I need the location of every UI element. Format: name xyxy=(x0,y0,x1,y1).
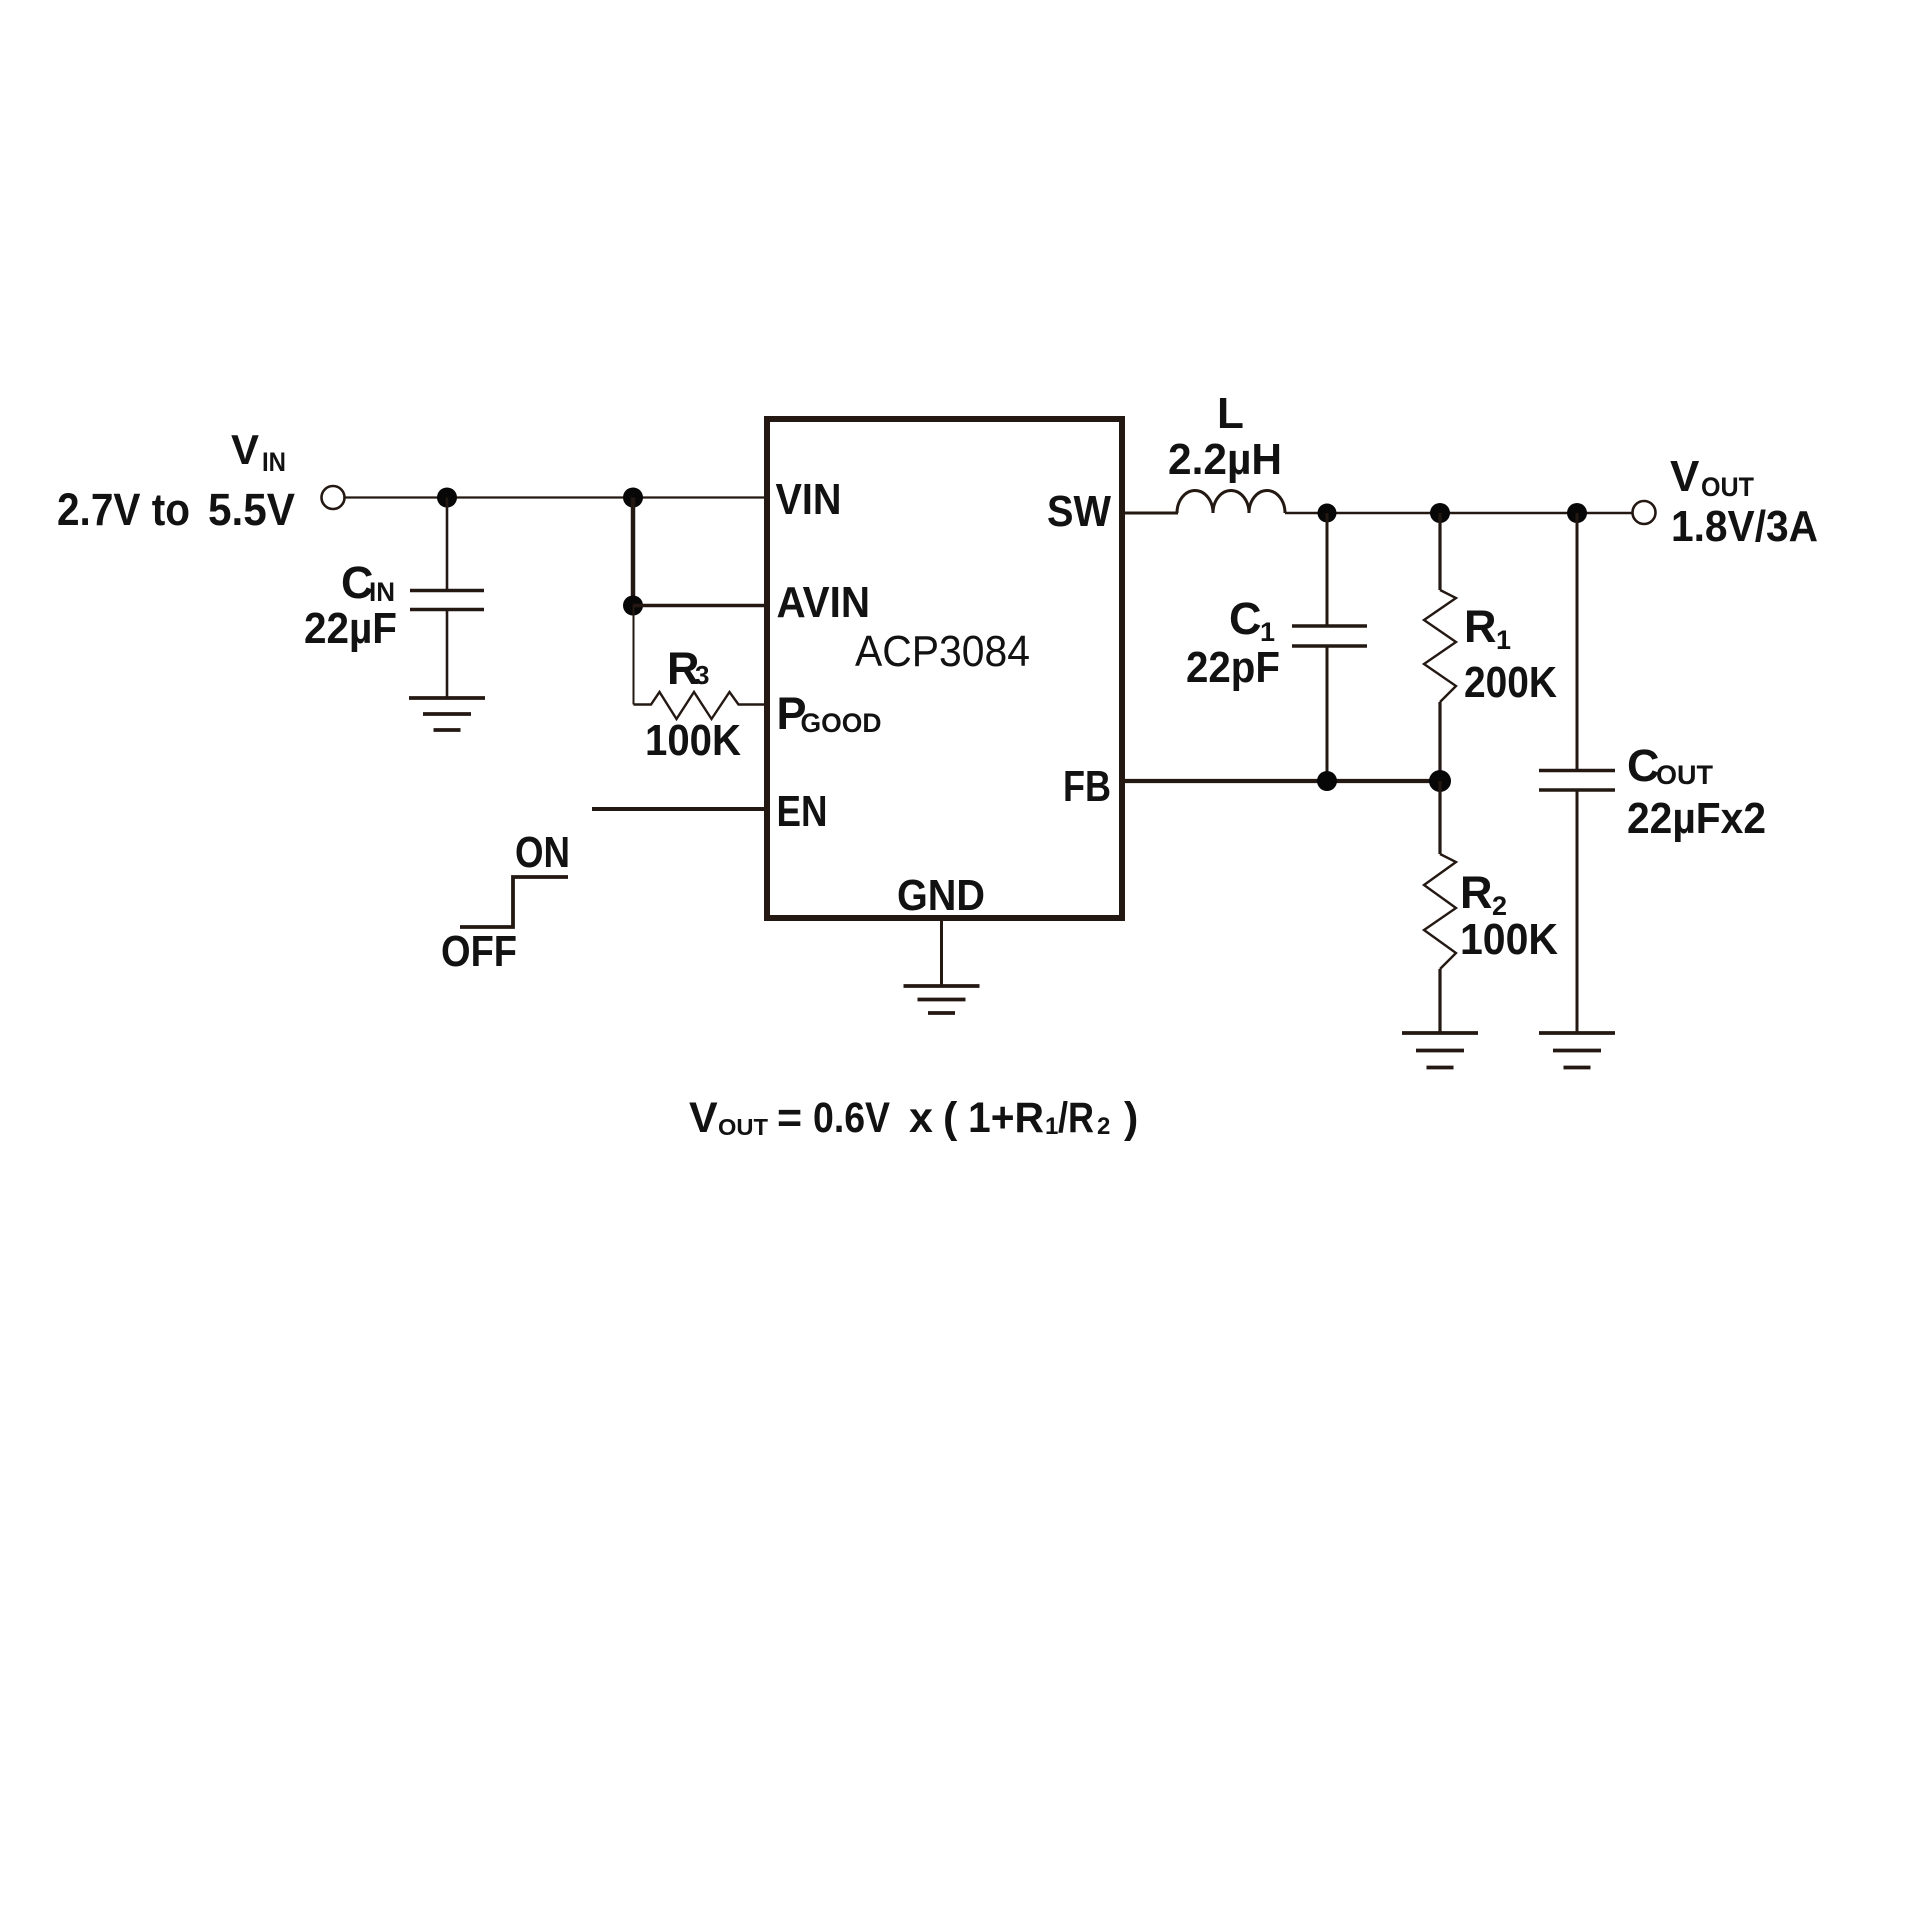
svg-text:R: R xyxy=(1464,601,1497,652)
resistor R2 xyxy=(1424,781,1456,1032)
svg-text:0.6V: 0.6V xyxy=(813,1094,890,1142)
label R2 xyxy=(1460,867,1507,921)
wire: GND pin to ground xyxy=(940,918,943,985)
symbol: ON/OFF step waveform xyxy=(460,877,568,927)
svg-text:ON: ON xyxy=(515,828,570,877)
svg-text:GOOD: GOOD xyxy=(801,708,882,738)
svg-text:1.8V/3A: 1.8V/3A xyxy=(1671,502,1818,551)
node VOUT label xyxy=(1670,452,1754,502)
svg-text:R: R xyxy=(1460,867,1493,918)
svg-text:100K: 100K xyxy=(1460,915,1558,964)
svg-text:): ) xyxy=(1124,1094,1138,1142)
terminal: VIN input xyxy=(322,486,345,509)
svg-text:V: V xyxy=(689,1094,718,1142)
ground (COUT) xyxy=(1539,1033,1615,1068)
svg-text:22µF: 22µF xyxy=(304,604,397,653)
svg-text:1: 1 xyxy=(1045,1113,1058,1140)
wire: input rail to VIN pin xyxy=(345,496,767,498)
ground (IC GND) xyxy=(904,986,980,1013)
wire: R3 drop xyxy=(633,606,635,705)
junction: COUT tap xyxy=(1567,503,1587,523)
ground (R2) xyxy=(1402,1033,1478,1068)
svg-text:1: 1 xyxy=(1496,625,1511,655)
wire: EN xyxy=(592,807,766,811)
wire: AVIN drop from input rail xyxy=(631,498,636,606)
svg-text:VIN: VIN xyxy=(776,475,842,524)
svg-text:IN: IN xyxy=(262,447,286,477)
svg-text:22µFx2: 22µFx2 xyxy=(1627,794,1766,843)
svg-text:C: C xyxy=(1627,740,1660,791)
IC U1 ACP3084 body xyxy=(767,419,1122,918)
wire: SW pin to inductor xyxy=(1122,512,1178,515)
svg-text:OUT: OUT xyxy=(718,1114,768,1140)
svg-text:2.2µH: 2.2µH xyxy=(1168,435,1282,484)
svg-text:1+R: 1+R xyxy=(968,1094,1044,1142)
svg-text:SW: SW xyxy=(1047,487,1111,536)
svg-text:L: L xyxy=(1217,389,1244,438)
wire: inductor to VOUT terminal xyxy=(1285,512,1633,515)
svg-text:x: x xyxy=(909,1094,933,1142)
junction: CIN tap xyxy=(437,488,457,508)
svg-text:AVIN: AVIN xyxy=(777,578,871,627)
junction: FB / R1 R2 xyxy=(1429,770,1451,792)
wire: AVIN node to AVIN pin xyxy=(633,604,766,608)
svg-text:ACP3084: ACP3084 xyxy=(855,627,1030,676)
resistor R1 xyxy=(1424,513,1456,781)
svg-text:5.5V: 5.5V xyxy=(208,484,295,535)
svg-text:100K: 100K xyxy=(645,716,741,765)
label C1 xyxy=(1229,593,1275,647)
capacitor COUT xyxy=(1539,513,1615,1032)
label R3 xyxy=(667,643,709,694)
label CIN xyxy=(341,557,395,608)
svg-text:2: 2 xyxy=(1097,1113,1110,1140)
junction: R1 tap xyxy=(1430,503,1450,523)
capacitor C1 xyxy=(1292,513,1367,781)
resistor R3 xyxy=(634,692,767,719)
junction: FB / C1 xyxy=(1317,771,1337,791)
label R1 xyxy=(1464,601,1511,655)
svg-text:V: V xyxy=(231,426,259,473)
ground (CIN) xyxy=(409,698,485,730)
svg-text:=: = xyxy=(777,1094,802,1142)
svg-text:3: 3 xyxy=(695,660,709,690)
svg-text:FB: FB xyxy=(1063,762,1111,811)
svg-text:200K: 200K xyxy=(1464,658,1557,707)
svg-text:/R: /R xyxy=(1058,1094,1094,1142)
svg-text:OUT: OUT xyxy=(1656,760,1714,790)
junction: AVIN node xyxy=(623,596,643,616)
label COUT xyxy=(1627,740,1714,791)
svg-text:EN: EN xyxy=(777,787,828,836)
svg-text:GND: GND xyxy=(897,871,985,920)
capacitor CIN xyxy=(410,498,484,698)
wire: FB pin to divider xyxy=(1122,779,1440,783)
svg-text:2.7V to: 2.7V to xyxy=(57,484,190,535)
junction: C1 tap xyxy=(1318,504,1337,523)
pin label PGOOD xyxy=(777,688,882,739)
junction: AVIN branch tap xyxy=(623,488,643,508)
terminal: VOUT xyxy=(1633,501,1656,524)
svg-text:IN: IN xyxy=(369,577,395,607)
node VIN label xyxy=(231,426,286,477)
svg-text:(: ( xyxy=(943,1094,958,1142)
svg-text:OFF: OFF xyxy=(441,927,517,976)
formula: VOUT = 0.6V x ( 1+R1/R2 ) xyxy=(689,1094,1138,1142)
svg-text:C: C xyxy=(1229,593,1262,644)
svg-text:V: V xyxy=(1670,452,1700,501)
label: input voltage range 2.7V to 5.5V xyxy=(57,484,295,535)
svg-text:22pF: 22pF xyxy=(1186,643,1280,692)
inductor L xyxy=(1177,491,1285,513)
svg-text:OUT: OUT xyxy=(1701,472,1754,502)
